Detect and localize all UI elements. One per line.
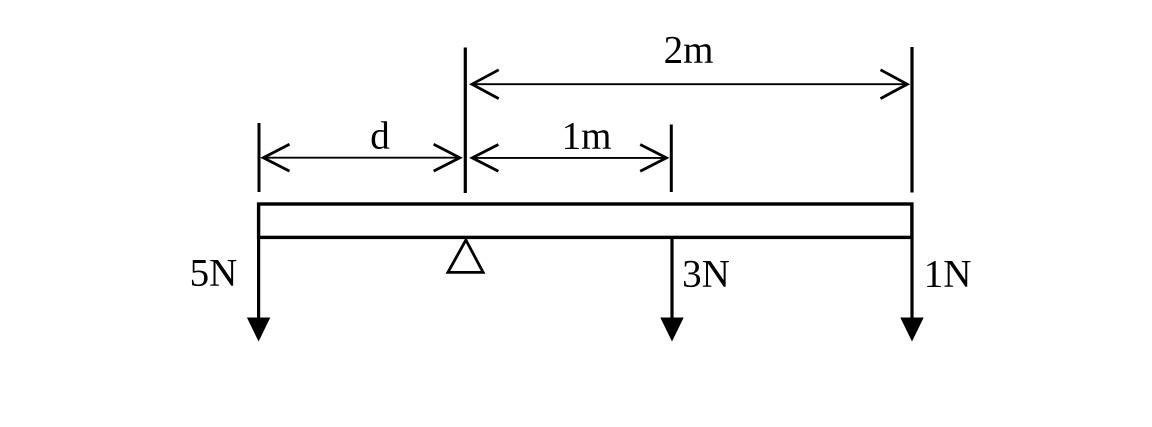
svg-text:2m: 2m <box>664 29 714 72</box>
svg-text:1m: 1m <box>562 115 612 158</box>
svg-text:5N: 5N <box>190 252 238 295</box>
svg-text:1N: 1N <box>924 253 972 296</box>
svg-text:3N: 3N <box>682 253 730 296</box>
svg-text:d: d <box>370 115 390 158</box>
